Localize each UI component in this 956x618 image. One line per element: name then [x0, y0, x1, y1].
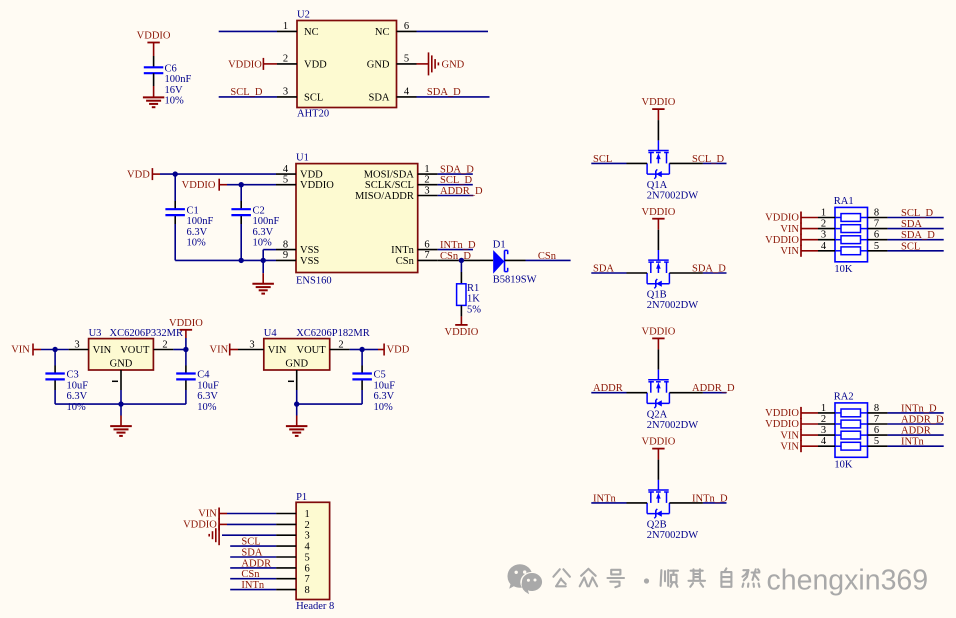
power port VDDIO (above Q1A) [641, 97, 675, 120]
node VOUT/C4/VDDIO junction [183, 347, 188, 352]
svg-text:U3: U3 [89, 328, 102, 339]
power port VIN (P1 pin1) [198, 508, 227, 520]
svg-text:C4: C4 [197, 370, 210, 381]
U4 pin3 lead [238, 349, 264, 351]
svg-text:VDDIO: VDDIO [137, 31, 171, 42]
wire U2 pin1 [219, 30, 277, 32]
Q2A part name 2N7002DW [647, 420, 698, 431]
svg-text:SDA_D: SDA_D [692, 264, 726, 275]
wire ADDR_D (right of RA2 pin 7) [888, 423, 944, 425]
U2 designator [297, 10, 310, 21]
svg-text:INTn: INTn [901, 437, 924, 448]
ground GND at U2 pin5 (sideways) [417, 52, 465, 75]
watermark text 然 [743, 569, 760, 587]
svg-text:VIN: VIN [198, 509, 217, 520]
wire P1 pin5 SDA [230, 556, 276, 558]
U4 pin2 lead [330, 349, 350, 351]
svg-text:SDA_D: SDA_D [440, 165, 474, 176]
svg-text:VDDIO: VDDIO [183, 520, 217, 531]
RA2 pin leads left [818, 413, 835, 446]
svg-text:VDDIO: VDDIO [169, 318, 203, 329]
RA2 pin numbers left 1-4 [821, 403, 827, 447]
wire C4 branch [185, 350, 187, 405]
svg-text:8: 8 [283, 239, 288, 250]
wire VDD net to U1 pin4 [160, 173, 276, 175]
U4 designator [264, 328, 278, 339]
wire SCL_D (right of Q1A) [703, 162, 727, 164]
svg-text:10K: 10K [834, 264, 853, 275]
wire P1 pin3 [222, 534, 276, 536]
U2 part name AHT20 [297, 109, 329, 120]
U4 part name XC6206P182MR [296, 328, 370, 339]
transistor Q2A 2N7002DW [647, 370, 669, 408]
svg-text:C6: C6 [165, 64, 177, 75]
svg-text:GND: GND [442, 59, 465, 70]
svg-text:ADDR: ADDR [241, 558, 271, 569]
power port VDDIO (below R1, pointing down) [444, 316, 478, 338]
svg-text:10uF: 10uF [197, 380, 219, 391]
Q1B designator [647, 290, 667, 301]
U1 pin names right [355, 170, 415, 267]
wire SDA (left of Q1B) [591, 272, 626, 274]
RA2 resistor element 2 [835, 420, 868, 428]
svg-text:ADDR_D: ADDR_D [692, 383, 735, 394]
svg-text:1: 1 [305, 509, 310, 520]
watermark text chengxin369 [767, 565, 929, 597]
U1 pin numbers right 1 2 3 6 7 [424, 164, 429, 261]
svg-text:7: 7 [305, 574, 310, 585]
net label SDA (P1 pin5) [241, 548, 262, 559]
net label ADDR [593, 383, 623, 394]
svg-text:SCL: SCL [241, 537, 260, 548]
svg-text:VDDIO: VDDIO [444, 327, 478, 338]
svg-text:VDDIO: VDDIO [641, 437, 675, 448]
capacitor C2 100nF 6.3V 10% [231, 205, 279, 248]
wire U1 pin1 SDA_D [438, 173, 473, 175]
svg-text:VOUT: VOUT [120, 345, 150, 356]
net label INTn_D [901, 403, 937, 414]
svg-text:VIN: VIN [93, 345, 112, 356]
svg-text:U1: U1 [296, 153, 309, 164]
wire VDDIO down to VOUT junction [185, 338, 187, 350]
U4 GND pin lead down [296, 370, 298, 404]
RA1 pin numbers right 8-5 [874, 208, 879, 252]
svg-text:ADDR: ADDR [901, 426, 931, 437]
net label SCL (P1 pin4) [241, 537, 260, 548]
svg-text:U2: U2 [297, 10, 310, 21]
svg-text:chengxin369: chengxin369 [767, 565, 929, 597]
node C2-GND junction [239, 258, 244, 263]
svg-text:VDD: VDD [304, 59, 327, 70]
svg-text:INTn: INTn [593, 493, 616, 504]
svg-text:2: 2 [283, 54, 288, 65]
net label SCL_D [692, 154, 725, 165]
svg-text:MISO/ADDR: MISO/ADDR [355, 191, 414, 202]
D1 part name B5819SW [493, 274, 537, 285]
U3 pin number 1 (GND, dash) [112, 380, 118, 382]
watermark text 公 [553, 569, 570, 586]
svg-text:VDDIO: VDDIO [641, 207, 675, 218]
svg-text:Q1A: Q1A [647, 180, 668, 191]
node VOUT/C5 junction [359, 347, 364, 352]
svg-text:3: 3 [249, 339, 254, 350]
svg-text:VSS: VSS [300, 245, 319, 256]
svg-text:NC: NC [304, 27, 319, 38]
wire ADDR (left of Q2A) [591, 392, 626, 394]
RA1 resistor element 1 [835, 214, 868, 222]
svg-text:4: 4 [283, 164, 289, 175]
svg-text:10%: 10% [197, 402, 217, 413]
svg-text:ENS160: ENS160 [296, 276, 332, 287]
svg-text:VIN: VIN [780, 224, 799, 235]
svg-text:2: 2 [305, 520, 310, 531]
wire ADDR_D (right of Q2A) [703, 392, 727, 394]
wire U3 GND rail [55, 403, 186, 405]
wire VIN to U3 pin3 [41, 349, 69, 351]
svg-text:2N7002DW: 2N7002DW [647, 300, 698, 311]
svg-text:VIN: VIN [11, 345, 30, 356]
svg-text:C3: C3 [67, 370, 79, 381]
svg-text:ADDR: ADDR [593, 383, 623, 394]
svg-text:5: 5 [305, 553, 310, 564]
svg-text:1: 1 [283, 21, 288, 32]
svg-text:2N7002DW: 2N7002DW [647, 191, 698, 202]
svg-text:VDDIO: VDDIO [300, 180, 334, 191]
U4 pin number 1 (GND, dash) [288, 380, 294, 382]
svg-text:VIN: VIN [268, 345, 287, 356]
wire VDDIO to Q2A gate [657, 349, 659, 369]
svg-text:4: 4 [404, 87, 410, 98]
Q2A source/drain pin leads [627, 392, 703, 394]
P1 pin numbers 1-8 [305, 509, 311, 596]
wire U3 VOUT to VDDIO [173, 349, 186, 351]
wire SCL (right of RA1 pin 5) [888, 250, 944, 252]
svg-text:3: 3 [424, 185, 429, 196]
net label SDA [593, 264, 614, 275]
net label SDA [901, 219, 922, 230]
RA1 pin leads right [868, 218, 888, 251]
svg-text:100nF: 100nF [187, 216, 214, 227]
svg-text:CSn: CSn [538, 251, 557, 262]
wire VDDIO to Q1A gate [657, 120, 659, 140]
net label INTn [593, 493, 616, 504]
wire INTn_D (right of RA2 pin 8) [888, 412, 944, 414]
node CSn_D / R1 junction [459, 258, 464, 263]
wire SDA_D (right of RA1 pin 6) [888, 239, 944, 241]
watermark WeChat icon [507, 564, 543, 594]
svg-text:ADDR_D: ADDR_D [901, 415, 944, 426]
svg-text:SCL: SCL [901, 241, 920, 252]
capacitor C4 10uF 6.3V 10% [176, 370, 219, 413]
svg-text:VDDIO: VDDIO [765, 408, 799, 419]
wire VDDIO to Q2B gate [657, 460, 659, 480]
svg-text:5: 5 [283, 175, 288, 186]
transistor Q2B 2N7002DW [647, 480, 669, 518]
wire CSn_D junction down to R1 [460, 260, 462, 283]
svg-text:VSS: VSS [300, 256, 319, 267]
RA1 pin numbers left 1-4 [821, 208, 827, 252]
svg-text:NC: NC [375, 27, 390, 38]
svg-text:VIN: VIN [780, 430, 799, 441]
svg-text:6.3V: 6.3V [187, 227, 208, 238]
svg-text:10K: 10K [834, 459, 853, 470]
resistor array RA2 body [835, 403, 868, 457]
Q1A source/drain pin leads [627, 162, 703, 164]
svg-text:6.3V: 6.3V [197, 391, 218, 402]
node VDD/C1 junction [173, 171, 178, 176]
svg-text:9: 9 [283, 250, 288, 261]
svg-text:D1: D1 [493, 239, 506, 250]
net label CSn [538, 251, 557, 262]
svg-text:4: 4 [305, 542, 311, 553]
svg-text:R1: R1 [467, 283, 479, 294]
U3 pin3 lead [69, 349, 89, 351]
wire P1 pin8 INTn [230, 589, 276, 591]
net label ADDR (P1 pin6) [241, 558, 271, 569]
connector P1 Header 8 body [296, 502, 330, 599]
svg-text:100nF: 100nF [253, 216, 280, 227]
watermark text 顺 [661, 570, 678, 587]
capacitor C6 100nF 16V 10% [144, 64, 192, 107]
svg-text:6: 6 [424, 239, 429, 250]
U3 pin numbers 3 2 [74, 339, 167, 350]
svg-text:CSn: CSn [396, 256, 415, 267]
power ports at RA1 left pins [765, 212, 818, 258]
RA2 designator [834, 391, 854, 402]
capacitor C5 10uF 6.3V 10% [352, 370, 395, 413]
node U4 GND junction [294, 401, 299, 406]
svg-text:SCL_D: SCL_D [901, 208, 934, 219]
watermark text 众 [580, 569, 597, 586]
U3 part name XC6206P332MR [110, 328, 184, 339]
svg-text:8: 8 [305, 585, 310, 596]
watermark separator dot [644, 578, 649, 583]
RA2 resistor element 3 [835, 431, 868, 439]
U1 part name ENS160 [296, 276, 332, 287]
wire INTn (right of RA2 pin 5) [888, 445, 944, 447]
wire U1 pin7 CSn_D to diode D1 [438, 259, 480, 261]
net label SDA_D [692, 264, 726, 275]
svg-text:3: 3 [305, 531, 310, 542]
IC U4 XC6206P182MR body [264, 339, 330, 370]
svg-text:CSn: CSn [241, 569, 260, 580]
RA1 resistor element 3 [835, 236, 868, 244]
svg-text:GND: GND [110, 358, 133, 369]
svg-text:Q2B: Q2B [647, 520, 667, 531]
svg-text:VDD: VDD [300, 170, 323, 181]
wire VDDIO junction down through C2 to GND rail [240, 185, 242, 261]
svg-text:U4: U4 [264, 328, 278, 339]
net label CSn (P1 pin7) [241, 569, 260, 580]
svg-text:SCL_D: SCL_D [440, 175, 473, 186]
Q2B part name 2N7002DW [647, 530, 698, 541]
svg-text:VDDIO: VDDIO [182, 180, 216, 191]
wire U2 pin6 NC [417, 30, 489, 32]
RA2 resistor element 1 [835, 409, 868, 417]
net label ADDR_D [901, 415, 944, 426]
capacitor C1 100nF 6.3V 10% [165, 205, 213, 248]
U1 pin leads left [276, 174, 296, 260]
wire U4 VOUT to VDD [350, 349, 378, 351]
ground (below U1 VSS rail) [252, 260, 274, 293]
power port VIN (left of U3) [11, 344, 41, 356]
svg-text:3: 3 [283, 87, 288, 98]
watermark text 自 [721, 568, 731, 586]
ground (below C6) [143, 86, 164, 107]
wire U1 pin8 VSS down to GND rail [263, 250, 276, 261]
P1 designator [296, 492, 307, 503]
U2 pin leads left [277, 31, 297, 97]
wire R1 to VDDIO power [460, 305, 462, 316]
ground (below U4) [286, 404, 308, 436]
svg-text:SCL_D: SCL_D [692, 154, 725, 165]
wire VDDIO net to U1 pin5 [227, 184, 276, 186]
svg-text:2N7002DW: 2N7002DW [647, 420, 698, 431]
U1 pin numbers left 4 5 8 9 [283, 164, 289, 261]
IC U2 AHT20 body [297, 21, 397, 108]
U3 pin names VIN VOUT GND [93, 345, 150, 369]
RA2 value 10K [834, 459, 853, 470]
svg-text:SCLK/SCL: SCLK/SCL [365, 180, 414, 191]
svg-text:SCL: SCL [304, 92, 323, 103]
svg-text:Q1B: Q1B [647, 290, 667, 301]
svg-text:1: 1 [424, 164, 429, 175]
svg-text:C1: C1 [187, 205, 199, 216]
svg-text:1K: 1K [467, 294, 480, 305]
U2 pin numbers 1 2 3 [283, 21, 288, 98]
power port VDDIO (above Q2A) [641, 327, 675, 350]
Q1B part name 2N7002DW [647, 300, 698, 311]
U1 pin leads right [418, 174, 438, 260]
svg-text:INTn: INTn [241, 580, 264, 591]
svg-text:RA2: RA2 [834, 391, 854, 402]
svg-text:VDDIO: VDDIO [641, 327, 675, 338]
net label SCL_D (U1 pin2) [440, 175, 473, 186]
svg-text:2N7002DW: 2N7002DW [647, 530, 698, 541]
net label SCL_D (U2 pin3) [230, 87, 263, 98]
wire SDA_D (right of Q1B) [703, 272, 727, 274]
wire SCL_D (right of RA1 pin 8) [888, 217, 944, 219]
Q2A designator [647, 409, 668, 420]
svg-text:10%: 10% [165, 96, 185, 107]
RA1 pin leads left [818, 218, 835, 251]
wire U2 pin3 SCL_D [219, 96, 277, 98]
wire GND rail (U1 VSS pin9) [175, 259, 276, 261]
svg-text:VDDIO: VDDIO [228, 59, 262, 70]
RA1 designator [834, 196, 854, 207]
svg-text:VDDIO: VDDIO [765, 419, 799, 430]
svg-text:INTn: INTn [391, 245, 414, 256]
svg-text:6.3V: 6.3V [67, 391, 88, 402]
svg-text:16V: 16V [165, 85, 184, 96]
svg-text:2: 2 [338, 339, 343, 350]
RA1 resistor element 4 [835, 247, 868, 255]
wire C5 branch [361, 350, 363, 405]
net label INTn (P1 pin8) [241, 580, 264, 591]
node U3 GND junction [118, 401, 123, 406]
Q1A part name 2N7002DW [647, 191, 698, 202]
net label SDA_D [901, 230, 935, 241]
svg-text:MOSI/SDA: MOSI/SDA [364, 170, 415, 181]
power port VDDIO (above Q2B) [641, 437, 675, 460]
svg-text:C2: C2 [253, 205, 265, 216]
wire U1 pin3 ADDR_D [438, 195, 474, 197]
diode D1 B5819SW (Schottky) [480, 250, 526, 274]
svg-text:VDDIO: VDDIO [765, 213, 799, 224]
svg-text:2: 2 [424, 175, 429, 186]
net label SCL [593, 154, 612, 165]
U3 GND pin lead down [120, 370, 122, 404]
svg-text:7: 7 [424, 250, 429, 261]
transistor Q1A 2N7002DW [647, 140, 669, 178]
node VIN/C3 junction [52, 347, 57, 352]
net label SDA_D (U2 pin4) [427, 87, 461, 98]
wire P1 pin2 [227, 523, 276, 525]
power port VDDIO at U2 pin2 [228, 58, 277, 70]
power port VDDIO (P1 pin2) [183, 518, 227, 530]
svg-text:SDA: SDA [593, 264, 614, 275]
RA1 value 10K [834, 264, 853, 275]
svg-text:6: 6 [305, 563, 310, 574]
svg-text:2: 2 [162, 339, 167, 350]
U3 pin2 lead [153, 349, 173, 351]
Q2B designator [647, 520, 667, 531]
net label ADDR [901, 426, 931, 437]
svg-text:6.3V: 6.3V [253, 227, 274, 238]
svg-text:C5: C5 [374, 370, 386, 381]
RA2 resistor element 4 [835, 442, 868, 450]
power port VDD (left of U1) [127, 168, 160, 180]
RA2 pin numbers right 8-5 [874, 403, 879, 447]
P1 pin leads [276, 514, 296, 590]
net label ADDR_D (U1 pin3) [440, 186, 483, 197]
svg-text:10%: 10% [187, 238, 207, 249]
svg-text:VDD: VDD [387, 345, 410, 356]
svg-text:B5819SW: B5819SW [493, 274, 537, 285]
U2 pin names right: NC GND SDA [367, 27, 390, 104]
U2 pin leads right [397, 31, 417, 97]
transistor Q1B 2N7002DW [647, 250, 669, 288]
svg-text:SDA_D: SDA_D [427, 87, 461, 98]
svg-text:VIN: VIN [210, 345, 229, 356]
svg-text:10%: 10% [253, 238, 273, 249]
power port VDDIO (above Q1B) [641, 207, 675, 230]
svg-text:ADDR_D: ADDR_D [440, 186, 483, 197]
wire VDDIO to Q1B gate [657, 230, 659, 250]
svg-text:CSn_D: CSn_D [440, 251, 471, 262]
wire SDA (right of RA1 pin 7) [888, 228, 944, 230]
Q2B source/drain pin leads [627, 502, 703, 504]
svg-text:SDA: SDA [241, 548, 262, 559]
U1 pin names left: VDD VDDIO VSS VSS [300, 170, 334, 267]
ground at P1 pin3 (sideways) [209, 525, 219, 545]
ground (below U3) [110, 404, 132, 436]
svg-text:VOUT: VOUT [297, 345, 327, 356]
svg-text:P1: P1 [296, 492, 307, 503]
svg-text:10%: 10% [374, 402, 394, 413]
wire VDDIO to C6 [153, 56, 155, 67]
wire U1 pin6 INTn_D [438, 249, 473, 251]
svg-text:VIN: VIN [780, 246, 799, 257]
RA1 resistor element 2 [835, 225, 868, 233]
svg-text:SDA_D: SDA_D [901, 230, 935, 241]
wire U4 GND rail [297, 403, 362, 405]
svg-text:6.3V: 6.3V [374, 391, 395, 402]
svg-text:XC6206P332MR: XC6206P332MR [110, 328, 184, 339]
svg-text:Header 8: Header 8 [296, 601, 334, 612]
wire U2 pin4 SDA_D [417, 96, 490, 98]
U4 pin names VIN VOUT GND [268, 345, 326, 369]
